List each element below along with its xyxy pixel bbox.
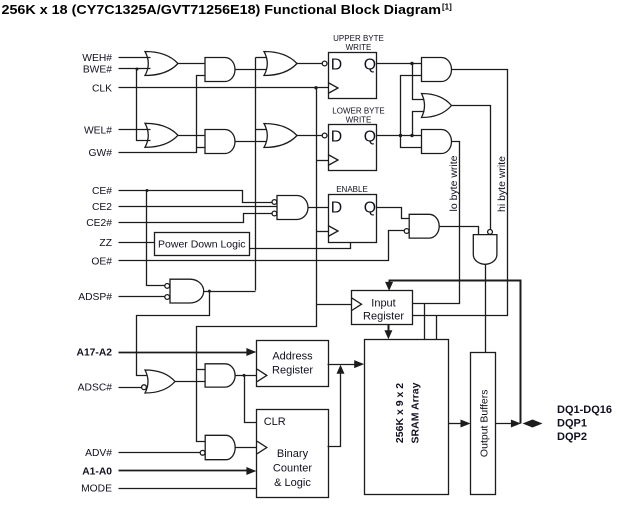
svg-text:GW#: GW# (89, 148, 113, 159)
wire FF3 Q (377, 208, 410, 219)
bubble FF1 D input (322, 61, 327, 66)
wire BWE# to OR2 (137, 69, 151, 141)
nand-gate G13 (output enable) (473, 235, 497, 265)
wire G14 out (175, 381, 206, 383)
wire ADSC# (119, 387, 142, 389)
arrow DQ right (533, 420, 543, 428)
svg-text:DQP1: DQP1 (557, 418, 587, 430)
wire ZZ (119, 242, 155, 244)
bubble G14 in2 (142, 385, 147, 390)
svg-text:lo byte write: lo byte write (448, 155, 460, 211)
svg-text:D: D (331, 200, 342, 217)
wire DQ feedback (390, 281, 521, 424)
wire A1-A0 (119, 470, 249, 472)
and-gate G12 (read enable) (409, 214, 439, 238)
wire G10 out (309, 207, 329, 209)
wire hi byte to SRAM (436, 316, 438, 340)
box power down logic (155, 233, 250, 256)
wire CE# to G11 (147, 191, 165, 286)
clk address register (257, 369, 267, 382)
wire power down to FF3 (250, 243, 351, 249)
wire CLK to input register clk (317, 304, 352, 306)
svg-text:DQ1-DQ16: DQ1-DQ16 (557, 404, 612, 416)
wire CE2 (119, 206, 277, 208)
arrow to DQ vertical (511, 420, 521, 428)
arrow SRAM to output buffers (461, 420, 471, 428)
arrow address register to SRAM (354, 360, 364, 368)
wire CLK to G15 (197, 369, 206, 371)
wire CLK (119, 87, 329, 89)
wire CLR (245, 376, 257, 423)
wire DQ bidirectional (531, 423, 535, 425)
and-gate G5 (205, 130, 235, 154)
or-gate G4 (WEL#/BWE#) (145, 123, 178, 147)
svg-text:Counter: Counter (273, 463, 312, 475)
wire ADSP net vertical (255, 58, 257, 291)
svg-text:WEL#: WEL# (84, 125, 112, 136)
svg-text:Q: Q (364, 57, 376, 74)
svg-text:ZZ: ZZ (99, 238, 112, 249)
wire FF1 Q (377, 63, 422, 65)
arrow counter feedback (337, 365, 345, 374)
arrow A1-A0 (246, 467, 256, 475)
svg-text:WRITE: WRITE (346, 115, 372, 124)
svg-text:WEH#: WEH# (82, 53, 112, 64)
svg-text:A1-A0: A1-A0 (82, 467, 112, 478)
bubble G12 in2 (404, 229, 409, 234)
arrow DQ feedback into input register (385, 282, 393, 291)
nand-gate G11 (ADSP) (170, 279, 204, 303)
svg-text:DQP2: DQP2 (557, 431, 587, 443)
svg-text:CE#: CE# (92, 186, 112, 197)
wire SRAM to output buffers (449, 423, 463, 425)
svg-text:D: D (331, 57, 342, 74)
svg-text:OE#: OE# (91, 257, 112, 268)
wire FF2Q cross vertical (401, 76, 422, 148)
node G11 out branch (208, 290, 211, 293)
svg-text:Power Down Logic: Power Down Logic (158, 239, 246, 251)
svg-text:ADSC#: ADSC# (78, 383, 113, 394)
wire G11 out (204, 291, 256, 293)
wire ADSP# (119, 296, 165, 298)
flip-flop FF3 enable (329, 195, 377, 243)
svg-text:BWE#: BWE# (83, 65, 112, 76)
bubble FF2 D input (322, 133, 327, 138)
bubble G10 in1 (272, 200, 277, 205)
wire output buffers to DQ (496, 423, 513, 425)
bubble G10 in3 (272, 211, 277, 216)
or-gate G1 (WEH#/BWE#) (145, 52, 178, 76)
clk binary counter (257, 441, 267, 454)
box input register (352, 291, 413, 325)
svg-text:[1]: [1] (442, 3, 452, 12)
and-gate G15 (addr clk) (205, 364, 235, 387)
svg-text:A17-A2: A17-A2 (77, 348, 113, 359)
svg-text:ADV#: ADV# (85, 448, 112, 459)
wire GW# (119, 76, 205, 153)
node CLK branch (314, 86, 317, 89)
svg-text:Register: Register (363, 311, 404, 323)
svg-text:CLR: CLR (264, 416, 286, 428)
wire input register to SRAM (388, 325, 390, 333)
wire FF1Q to G8 (413, 64, 425, 100)
wire A17-A2 (119, 352, 249, 354)
nand-gate G16 (ADV) (205, 435, 235, 459)
bubble G11 in2 (165, 295, 170, 300)
svg-text:Output Buffers: Output Buffers (478, 390, 490, 458)
or-gate G8 (422, 94, 452, 118)
node FF2 Q branch b (410, 134, 413, 137)
wire CLK to FF3 clk (317, 231, 329, 233)
wire G13 out to output buffers (485, 265, 487, 353)
svg-text:LOWER BYTE: LOWER BYTE (332, 107, 384, 116)
box address register (257, 341, 329, 387)
bubble G13 top input (488, 230, 493, 235)
flip-flop FF2 lower byte write (329, 125, 377, 171)
wire CLK to FF2 clk (317, 160, 329, 162)
node BWE# branch (136, 68, 139, 71)
wire G12 out (440, 227, 479, 235)
wire G15 out (235, 375, 257, 377)
svg-text:SRAM Array: SRAM Array (410, 382, 422, 443)
node G15 out branch (243, 374, 246, 377)
wire G3 out (297, 63, 323, 65)
svg-text:MODE: MODE (81, 484, 112, 495)
wire ADSP net to G3 (256, 57, 267, 59)
arrow input register to SRAM (384, 330, 392, 339)
wire ADV# (119, 452, 201, 454)
wire G5 out (235, 141, 267, 143)
svg-text:CLK: CLK (92, 84, 112, 95)
wire hi byte write (413, 70, 508, 316)
wire address register to SRAM (328, 364, 357, 366)
svg-text:UPPER BYTE: UPPER BYTE (333, 34, 384, 43)
wire FF2Q to G8 (413, 112, 425, 136)
svg-text:& Logic: & Logic (274, 477, 311, 489)
wire FF2 Q (377, 135, 422, 137)
svg-text:Q: Q (364, 129, 376, 146)
svg-text:hi byte write: hi byte write (496, 156, 508, 212)
or-gate G14 (ADSC) (145, 370, 175, 393)
or-gate G6 (to lower byte FF) (264, 124, 297, 148)
clk input register (352, 298, 362, 311)
bubble G16 in2 (200, 450, 205, 455)
and-gate G2 (205, 58, 235, 82)
wire CE2# (119, 214, 272, 223)
arrow DQ left (523, 420, 533, 428)
or-gate G3 (to upper byte FF) (264, 52, 297, 76)
wire ADSP net to G6 (256, 129, 267, 131)
wire MODE (119, 488, 257, 490)
wire G2 out (235, 69, 267, 71)
wire G8 out to nand (452, 106, 491, 230)
and-gate G7 (hi byte write) (422, 58, 452, 82)
wire G1 out (179, 63, 205, 65)
wire G6 out (297, 135, 323, 137)
svg-text:WRITE: WRITE (346, 43, 372, 52)
nand-gate G10 (chip enable) (277, 196, 308, 220)
bubble G11 in1 (165, 284, 170, 289)
wire OE# (119, 231, 405, 261)
box binary counter (257, 410, 329, 498)
wire G4 out (179, 135, 205, 137)
wire BWE# (119, 68, 151, 70)
wire G16 out (236, 447, 257, 449)
svg-text:Binary: Binary (277, 448, 309, 460)
svg-text:Register: Register (272, 364, 313, 376)
node FF2 Q branch a (399, 134, 402, 137)
node CE# branch (146, 189, 149, 192)
svg-text:Input: Input (371, 297, 395, 309)
svg-text:ADSP#: ADSP# (78, 292, 112, 303)
svg-text:256K x 18 (CY7C1325A/GVT71256E: 256K x 18 (CY7C1325A/GVT71256E18) Functi… (2, 2, 442, 17)
box output buffers (471, 353, 496, 495)
box SRAM array (365, 340, 449, 495)
flip-flop FF1 upper byte write (329, 53, 377, 99)
wire CE# (119, 191, 272, 203)
wire counter feedback (328, 373, 341, 447)
wire CLK vertical (197, 88, 317, 442)
svg-text:Address: Address (272, 351, 313, 363)
wire WEH# (119, 57, 151, 59)
wire lo byte write (413, 142, 460, 304)
svg-text:Q: Q (364, 200, 376, 217)
and-gate G9 (lo byte write) (422, 130, 452, 154)
arrow A17-A2 (246, 348, 256, 356)
wire ADSP net down (137, 292, 210, 376)
wire GW# to AND2 (197, 147, 205, 149)
svg-text:CE2: CE2 (92, 202, 112, 213)
svg-text:256K x 9 x 2: 256K x 9 x 2 (394, 383, 406, 443)
svg-text:ENABLE: ENABLE (336, 185, 368, 194)
wire lo byte to SRAM (424, 304, 426, 340)
svg-text:D: D (331, 129, 342, 146)
svg-text:CE2#: CE2# (86, 218, 112, 229)
wire WEL# (119, 129, 151, 131)
node FF1 Q branch (410, 62, 413, 65)
